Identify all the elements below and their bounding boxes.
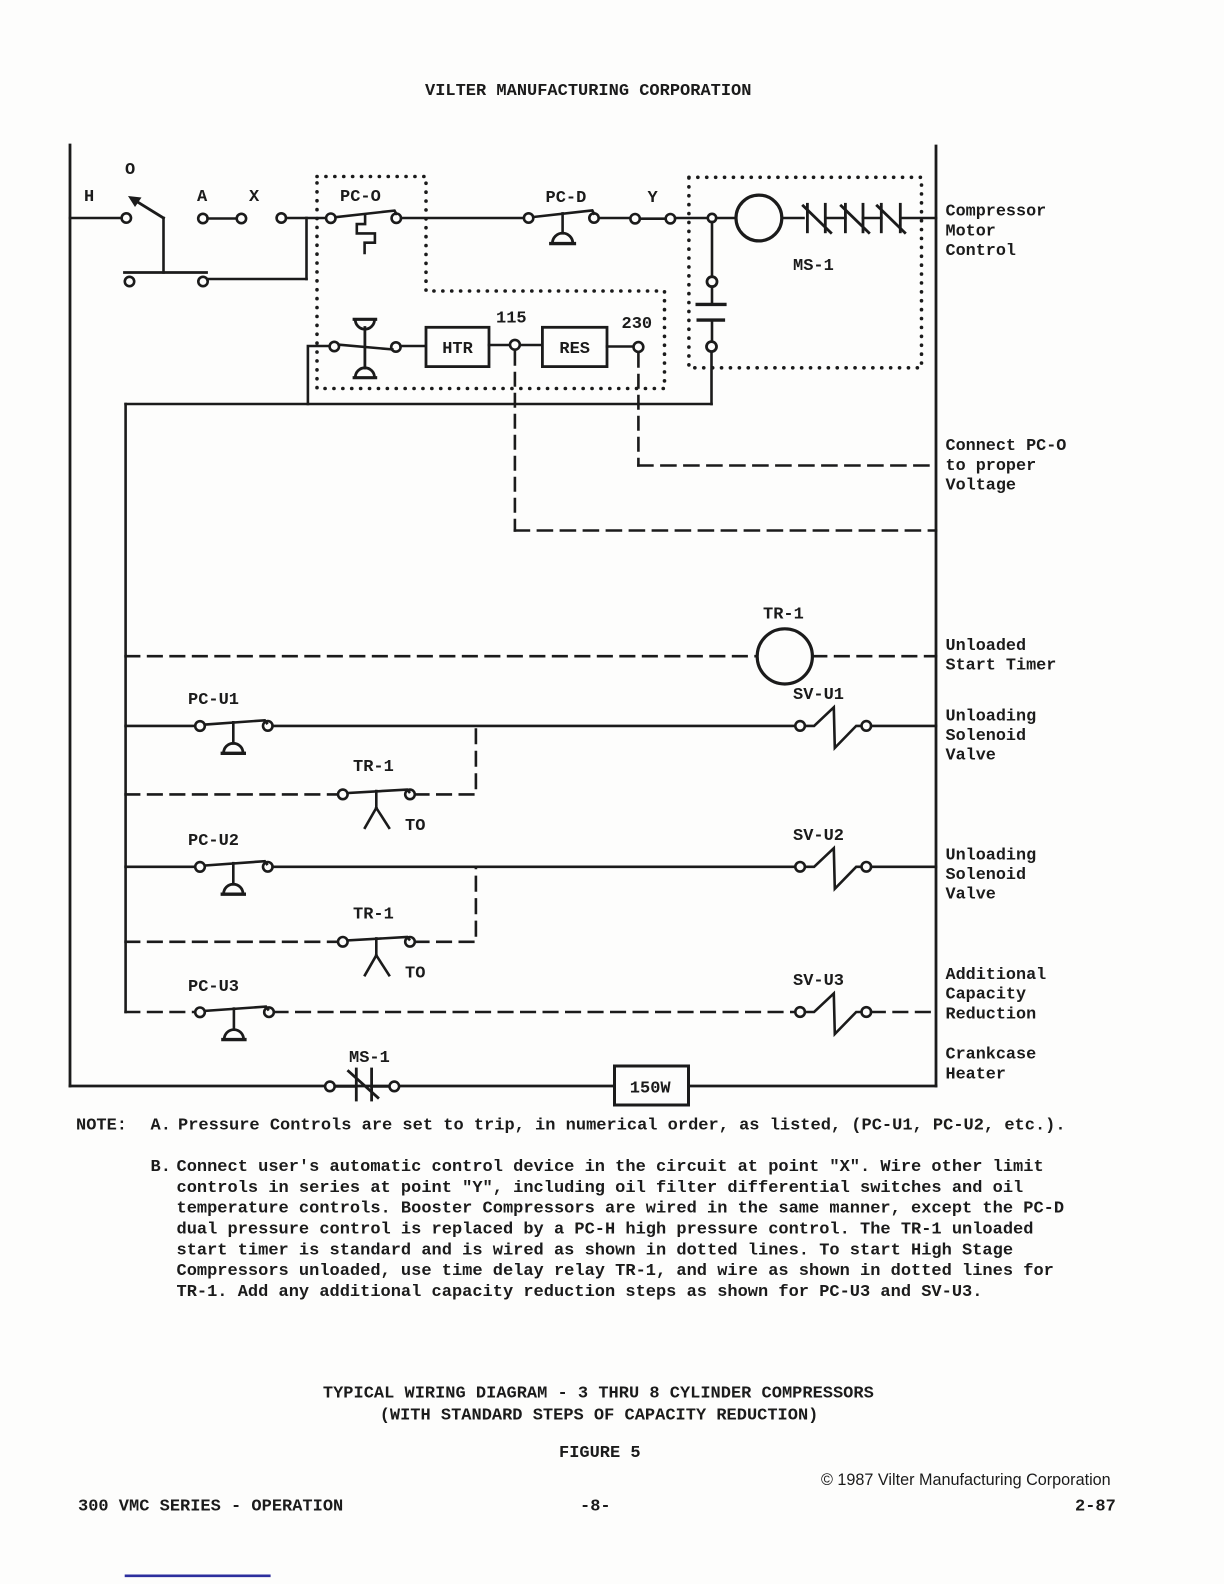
- pressure switch PC-D arm: [533, 210, 594, 217]
- svg-text:temperature controls. Booster: temperature controls. Booster Compressor…: [177, 1200, 1065, 1219]
- wire: between Y terminals: [640, 217, 666, 220]
- label A: [197, 188, 208, 207]
- label PC-U2: [188, 832, 239, 851]
- label TR-1 (contact a): [353, 758, 394, 777]
- caption: FIGURE 5: [559, 1444, 641, 1463]
- contactor aux contact MS-1 left terminal: [325, 1082, 335, 1092]
- node 115 terminal: [510, 340, 520, 350]
- svg-text:Compressor: Compressor: [946, 203, 1047, 222]
- pressure switch PC-U2 right terminal: [263, 862, 273, 872]
- svg-text:Crankcase: Crankcase: [946, 1045, 1037, 1064]
- pressure switch PC-U2 arm: [205, 861, 267, 865]
- label: Unloading Solenoid Valve 1: [946, 707, 1037, 765]
- label Y: [648, 189, 659, 208]
- svg-text:start timer is standard and is: start timer is standard and is wired as …: [177, 1241, 1014, 1260]
- wire: junction to coil: [716, 217, 736, 220]
- svg-text:PC-D: PC-D: [546, 189, 587, 208]
- timer contact TR-1b right terminal: [405, 937, 415, 947]
- wire: dashed TR-1b branch left: [126, 940, 338, 943]
- node 230 terminal: [634, 342, 644, 352]
- wire: dashed 115V line to L2 rail: [515, 529, 936, 532]
- node: Y terminal right: [666, 214, 675, 223]
- wire: node 115 to RES: [520, 344, 543, 347]
- pressure switch PC-U1 left terminal: [195, 721, 205, 731]
- svg-text:Compressors unloaded, use time: Compressors unloaded, use time delay rel…: [177, 1262, 1054, 1281]
- caption: copyright: [821, 1471, 1111, 1489]
- dotted enclosure: MS-1 motor starter: [689, 177, 922, 367]
- svg-text:VILTER MANUFACTURING CORPORATI: VILTER MANUFACTURING CORPORATION: [425, 82, 751, 101]
- timer contact TR-1b arm: [348, 937, 410, 940]
- timer contact TR-1a right terminal: [405, 790, 415, 800]
- label H: [84, 188, 94, 207]
- wire: SV-U2 to L2 rail: [871, 865, 936, 868]
- contactor coil MS-1: [736, 195, 782, 241]
- svg-text:to proper: to proper: [946, 457, 1037, 476]
- label: Compressor Motor Control: [946, 203, 1047, 261]
- pressure switch PC-U3 left terminal: [195, 1008, 205, 1018]
- wire: MS-1 terminal to bars: [335, 1085, 356, 1088]
- page title: VILTER MANUFACTURING CORPORATION: [425, 82, 751, 101]
- label SV-U1: [793, 686, 844, 705]
- wire: dashed SV-U3 to L2 rail: [871, 1011, 936, 1014]
- label 115: [496, 310, 527, 329]
- wire: OL1 to OL2: [825, 217, 845, 220]
- pressure element rod: [363, 328, 366, 369]
- pressure bellows lower bell: [354, 368, 375, 378]
- timer contact TR-1a time-delay actuator: [365, 791, 389, 828]
- caption: figure title: [323, 1385, 874, 1426]
- overload heater OL2: [841, 204, 869, 232]
- wire: OL3 to L2 rail: [900, 217, 936, 220]
- svg-text:SV-U3: SV-U3: [793, 972, 844, 991]
- solenoid valve SV-U3 right terminal: [862, 1007, 872, 1017]
- svg-text:2-87: 2-87: [1075, 1498, 1116, 1517]
- pressure switch PC-U3 arm: [205, 1007, 268, 1011]
- solenoid valve SV-U3 coil symbol: [805, 993, 862, 1034]
- capacitor C1 plates: [697, 304, 725, 320]
- wire: capacitor plate to lower terminal: [711, 322, 714, 342]
- pressure switch heater contact arm: [339, 345, 392, 350]
- label TR-1 (contact b): [353, 906, 394, 925]
- label SV-U3: [793, 972, 844, 991]
- svg-text:Motor: Motor: [946, 222, 996, 241]
- crankcase heater 150W box: [615, 1066, 689, 1105]
- svg-text:150W: 150W: [630, 1080, 672, 1099]
- svg-text:PC-U1: PC-U1: [188, 691, 239, 710]
- caption: footer left: [78, 1498, 343, 1517]
- label TO (contact b): [405, 965, 425, 984]
- svg-text:SV-U2: SV-U2: [793, 827, 844, 846]
- pressure switch PC-O heater contact left terminal: [330, 342, 339, 351]
- label PC-D: [546, 189, 587, 208]
- node: Y terminal left: [630, 214, 639, 223]
- wire: inner left rail: [124, 404, 127, 1012]
- solenoid valve SV-U1 right terminal: [862, 721, 872, 731]
- pressure switch PC-U1 stem: [232, 722, 235, 743]
- svg-text:TO: TO: [405, 965, 425, 984]
- label: Unloaded Start Timer: [946, 637, 1057, 676]
- svg-text:TR-1: TR-1: [763, 606, 804, 625]
- label TO: [405, 817, 425, 836]
- wire: dashed timer row right: [813, 655, 936, 658]
- wire: riser up to main row at node X: [305, 218, 308, 279]
- overload heater OL3: [877, 204, 905, 232]
- wire: capacitor leg down to return line: [710, 352, 713, 404]
- selector switch pole bar: [125, 271, 207, 274]
- label MS-1: [793, 257, 834, 276]
- svg-text:B.: B.: [151, 1158, 171, 1177]
- pressure switch PC-U1 arm: [205, 720, 267, 724]
- label: Additional Capacity Reduction: [946, 966, 1047, 1024]
- label: Unloading Solenoid Valve 2: [946, 846, 1037, 904]
- svg-text:H: H: [84, 188, 94, 207]
- pressure switch PC-U3 bell: [223, 1030, 245, 1040]
- pressure switch PC-U2 stem: [232, 863, 235, 884]
- wire: dashed 230V line to L2 rail: [638, 464, 936, 467]
- dotted enclosure: PC-O / heater compartment: [317, 177, 665, 389]
- wire: PC-U2 row left: [126, 865, 196, 868]
- wire: return line to inner rail: [126, 403, 712, 406]
- pressure switch PC-U2 left terminal: [195, 862, 205, 872]
- svg-text:X: X: [249, 188, 260, 207]
- svg-text:Unloaded: Unloaded: [946, 637, 1027, 656]
- pressure switch PC-U3 stem: [233, 1009, 236, 1030]
- node: contact A right terminal: [237, 214, 246, 223]
- wire: PC-U2 to SV-U2: [273, 865, 796, 868]
- pressure switch PC-D left terminal: [524, 213, 533, 222]
- wire: HTR to node 115: [489, 344, 510, 347]
- svg-text:PC-U3: PC-U3: [188, 978, 239, 997]
- resistor RES box: [542, 327, 607, 366]
- pressure switch PC-D diaphragm stem: [561, 213, 564, 233]
- svg-text:Heater: Heater: [946, 1065, 1006, 1084]
- label: Crankcase Heater: [946, 1045, 1037, 1084]
- solenoid valve SV-U2 coil symbol: [805, 848, 862, 889]
- svg-text:TO: TO: [405, 817, 425, 836]
- svg-text:Valve: Valve: [946, 747, 996, 766]
- heater HTR box: [426, 327, 489, 366]
- svg-text:Control: Control: [946, 242, 1017, 261]
- svg-text:A.: A.: [151, 1117, 171, 1136]
- wire: dashed PC-U3 row left: [126, 1011, 196, 1014]
- svg-text:115: 115: [496, 310, 527, 329]
- solenoid valve SV-U2 right terminal: [862, 862, 872, 872]
- svg-text:Solenoid: Solenoid: [946, 727, 1027, 746]
- wire: Y to MS-1 coil junction: [675, 217, 708, 220]
- contactor aux contact MS-1 right terminal: [390, 1082, 400, 1092]
- node: capacitor upper terminal: [707, 277, 717, 287]
- selector switch S1 arm with arrow (pole 1): [128, 196, 164, 218]
- wire: lower contact to riser: [208, 278, 307, 281]
- svg-text:HTR: HTR: [442, 340, 473, 359]
- node: capacitor lower terminal: [707, 342, 717, 352]
- wire: dashed TR-1a branch left: [126, 793, 338, 796]
- wire: SV-U1 to L2 rail: [871, 725, 936, 728]
- wire: RES to node 230: [607, 345, 634, 348]
- svg-text:Voltage: Voltage: [946, 476, 1017, 495]
- wire: dashed TR-1a branch right and riser to PC-U1 row: [415, 726, 476, 795]
- contactor aux contact MS-1 bars with NC slash: [349, 1069, 378, 1100]
- svg-text:dual pressure control is repla: dual pressure control is replaced by a P…: [177, 1221, 1034, 1240]
- svg-text:controls in series at point "Y: controls in series at point "Y", includi…: [177, 1179, 1024, 1198]
- label 230: [622, 315, 653, 334]
- node: selector lower contact right: [198, 277, 207, 286]
- solenoid valve SV-U1 coil symbol: [805, 707, 862, 748]
- wire: between A terminals: [208, 217, 237, 220]
- caption: footer right date: [1075, 1498, 1116, 1517]
- solenoid valve SV-U3 left terminal: [795, 1007, 805, 1017]
- svg-text:TR-1: TR-1: [353, 758, 394, 777]
- svg-text:Unloading: Unloading: [946, 846, 1037, 865]
- label PC-U3: [188, 978, 239, 997]
- wire: OL2 to OL3: [863, 217, 881, 220]
- svg-text:© 1987 Vilter Manufacturing Co: © 1987 Vilter Manufacturing Corporation: [821, 1471, 1111, 1489]
- svg-text:Start Timer: Start Timer: [946, 657, 1057, 676]
- svg-text:A: A: [197, 188, 208, 207]
- timer contact TR-1b time-delay actuator: [365, 938, 389, 975]
- wire: X terminal to PC-O: [286, 217, 326, 220]
- svg-text:SV-U1: SV-U1: [793, 686, 844, 705]
- node: selector lower contact left: [125, 277, 134, 286]
- svg-text:TR-1. Add any additional capa: TR-1. Add any additional capacity reduct…: [177, 1283, 983, 1302]
- pressure switch PC-D right terminal: [589, 213, 598, 222]
- solenoid valve SV-U2 left terminal: [795, 862, 805, 872]
- svg-text:Connect user's automatic contr: Connect user's automatic control device …: [177, 1158, 1044, 1177]
- wire: junction down to capacitor: [711, 222, 714, 277]
- label MS-1 (aux contact): [349, 1049, 390, 1068]
- pressure switch PC-O left terminal: [326, 214, 335, 223]
- label TR-1 (timer coil): [763, 606, 804, 625]
- timer contact TR-1b left terminal: [338, 937, 348, 947]
- pressure switch PC-U1 right terminal: [263, 721, 273, 731]
- label SV-U2: [793, 827, 844, 846]
- wire: L1 to selector terminal H: [70, 217, 122, 220]
- svg-text:Valve: Valve: [946, 886, 996, 905]
- wire: dashed voltage tap from node 230: [637, 354, 640, 466]
- svg-text:MS-1: MS-1: [349, 1049, 390, 1068]
- note text block: [76, 1117, 1066, 1303]
- label X: [249, 188, 260, 207]
- label O: [125, 161, 135, 180]
- wire: heater branch drop from PC-O compartment: [308, 346, 330, 404]
- wire: heater contact to HTR: [401, 345, 426, 348]
- node: coil junction terminal: [708, 214, 716, 222]
- wire: dashed timer row left: [126, 655, 757, 658]
- label PC-U1: [188, 691, 239, 710]
- wire: selector pivot down to pole bar: [162, 218, 165, 273]
- svg-text:Unloading: Unloading: [946, 707, 1037, 726]
- pressure switch PC-D diaphragm bell: [551, 233, 575, 244]
- svg-text:RES: RES: [559, 340, 590, 359]
- wire: dashed PC-U3 to SV-U3: [274, 1011, 796, 1014]
- pressure switch PC-U1 bell: [222, 743, 244, 753]
- svg-text:-8-: -8-: [580, 1498, 611, 1517]
- svg-text:O: O: [125, 161, 135, 180]
- caption: page number: [580, 1498, 611, 1517]
- node: point X terminal: [277, 213, 286, 222]
- pressure switch PC-O heater contact right terminal: [391, 342, 400, 351]
- svg-text:Reduction: Reduction: [946, 1005, 1037, 1024]
- svg-text:TR-1: TR-1: [353, 906, 394, 925]
- svg-text:Y: Y: [648, 189, 659, 208]
- pressure switch PC-U3 right terminal: [264, 1007, 274, 1017]
- wire: PC-D to Y terminals: [599, 217, 630, 220]
- svg-text:PC-U2: PC-U2: [188, 832, 239, 851]
- node: contact A left terminal: [198, 214, 207, 223]
- wire: PC-U1 to SV-U1: [273, 725, 796, 728]
- wire: coil to overloads: [782, 217, 804, 220]
- svg-text:Connect PC-O: Connect PC-O: [946, 437, 1067, 456]
- label PC-O: [340, 188, 381, 207]
- svg-text:NOTE:: NOTE:: [76, 1117, 127, 1136]
- pressure switch PC-O arm: [336, 211, 397, 218]
- timer contact TR-1a left terminal: [338, 790, 348, 800]
- overload heater OL1: [803, 204, 831, 232]
- wire: PC-U1 row left: [126, 725, 196, 728]
- wire: left supply rail L1: [69, 145, 72, 1086]
- pressure bellows upper bell: [354, 319, 375, 329]
- wire: terminal to capacitor plate: [711, 287, 714, 303]
- svg-text:TYPICAL WIRING DIAGRAM - 3 THR: TYPICAL WIRING DIAGRAM - 3 THRU 8 CYLIND…: [323, 1385, 874, 1404]
- wire: PC-O to PC-D: [401, 217, 524, 220]
- svg-text:230: 230: [622, 315, 653, 334]
- wire: dashed voltage tap from node 115: [514, 352, 517, 531]
- svg-text:FIGURE 5: FIGURE 5: [559, 1444, 641, 1463]
- label: Connect PC-O to proper Voltage: [946, 437, 1067, 495]
- svg-text:Capacity: Capacity: [946, 986, 1027, 1005]
- pressure switch PC-O pressure element (step symbol): [357, 215, 375, 254]
- timer contact TR-1a arm: [348, 790, 410, 793]
- wire: dashed TR-1b branch right and riser to PC-U2 row: [415, 867, 476, 942]
- svg-text:Pressure Controls are set to t: Pressure Controls are set to trip, in nu…: [178, 1117, 1066, 1136]
- pressure switch PC-O right terminal: [392, 214, 401, 223]
- svg-text:(WITH STANDARD STEPS OF CAPACI: (WITH STANDARD STEPS OF CAPACITY REDUCTI…: [380, 1407, 819, 1426]
- wire: bars to right terminal: [372, 1085, 390, 1088]
- svg-text:MS-1: MS-1: [793, 257, 834, 276]
- svg-text:PC-O: PC-O: [340, 188, 381, 207]
- wire: bottom row (crankcase heater line): [70, 1085, 936, 1088]
- svg-text:300 VMC SERIES - OPERATION: 300 VMC SERIES - OPERATION: [78, 1498, 343, 1517]
- solenoid valve SV-U1 left terminal: [795, 721, 805, 731]
- node H terminal: [122, 213, 131, 222]
- pressure switch PC-U2 bell: [222, 884, 244, 894]
- wire: right supply rail L2: [935, 146, 938, 1086]
- svg-text:Solenoid: Solenoid: [946, 866, 1027, 885]
- timer coil TR-1: [757, 629, 812, 684]
- decorative blue pen line: [126, 1575, 269, 1578]
- svg-text:Additional: Additional: [946, 966, 1047, 985]
